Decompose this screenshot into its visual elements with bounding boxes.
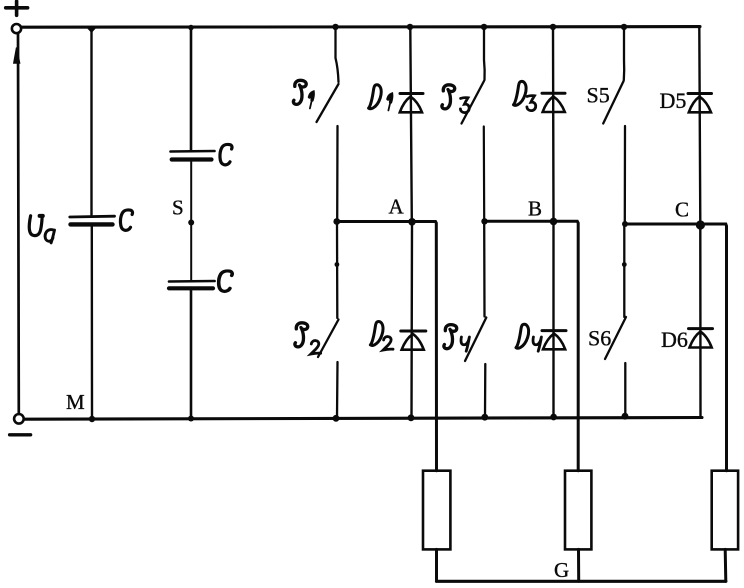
plus terminal symbol <box>6 1 28 15</box>
diode D4 <box>542 223 566 417</box>
resistor R1 <box>423 471 450 550</box>
svg-text:S: S <box>172 196 184 220</box>
wire left source line <box>17 34 20 414</box>
diode D1 <box>400 28 423 220</box>
junction dot S6 wire <box>622 262 627 267</box>
node B wire <box>485 221 579 470</box>
svg-text:M: M <box>66 390 85 414</box>
svg-text:D5: D5 <box>660 88 687 113</box>
switch S1 <box>317 28 339 220</box>
wire R1 bottom lead <box>435 549 438 581</box>
label S1 <box>293 80 313 108</box>
wire dc-link branch upper <box>90 27 92 215</box>
arrow Ud direction <box>14 48 20 64</box>
switch S5 <box>603 28 625 223</box>
junction dot bottom rail S2 <box>333 415 340 422</box>
label C3 value C <box>219 271 233 291</box>
capacitor C3 <box>169 281 215 288</box>
junction dot S <box>188 220 194 226</box>
label S4 <box>444 325 470 352</box>
svg-text:C: C <box>675 198 689 222</box>
svg-text:A: A <box>389 195 405 219</box>
label C2 value C <box>220 144 232 164</box>
wire R3 bottom lead <box>724 549 728 581</box>
junction dot top rail S-chain <box>188 25 194 31</box>
resistor R3 <box>712 471 738 550</box>
junction dot node A <box>408 218 416 226</box>
junction dot node A left <box>333 218 340 225</box>
junction dot top rail S1 <box>332 24 338 30</box>
diode D6 <box>689 226 713 417</box>
label S2 <box>295 323 321 354</box>
svg-text:S6: S6 <box>588 326 611 351</box>
negative terminal circle <box>14 414 24 424</box>
resistor R2 <box>565 471 591 550</box>
capacitor C2 <box>171 151 215 160</box>
switch S2 <box>318 223 339 417</box>
junction dot bottom rail S4 <box>481 414 488 421</box>
junction dot bottom rail D4 <box>550 414 557 421</box>
capacitor C1 <box>70 216 115 224</box>
diode D3 <box>542 28 565 220</box>
wire G bus <box>437 580 726 583</box>
switch S3 <box>462 28 485 220</box>
label D3 <box>514 81 536 110</box>
junction dot bottom rail D2 <box>408 414 415 421</box>
wire bottom rail <box>24 418 702 420</box>
junction dot node B left <box>481 218 487 224</box>
junction dot M <box>89 416 95 422</box>
junction dot top rail C1 <box>86 27 97 33</box>
label C1 value C <box>120 210 132 230</box>
label D4 <box>516 324 541 351</box>
diode D2 <box>401 223 426 417</box>
switch S4 <box>465 223 486 417</box>
svg-text:D6: D6 <box>661 327 688 352</box>
node C wire <box>625 224 727 471</box>
junction dot bottom rail S6 <box>622 413 629 420</box>
junction dot S2 wire <box>335 262 340 267</box>
svg-text:B: B <box>528 197 542 221</box>
node A wire <box>337 222 437 471</box>
positive terminal circle <box>12 24 21 33</box>
junction dot node B <box>550 218 558 226</box>
wire top rail <box>21 25 700 29</box>
switch S6 <box>605 226 626 415</box>
junction dot node C <box>696 220 705 229</box>
junction dot top rail D1 <box>407 24 413 30</box>
label D1 <box>369 85 392 111</box>
junction dot top rail D3 <box>550 24 556 30</box>
wire midpoint chain lower <box>190 290 193 418</box>
junction dot top rail S5 <box>621 24 627 30</box>
diode D5 <box>688 27 712 223</box>
junction dot node C left <box>622 221 628 227</box>
wire R2 bottom lead <box>577 549 580 581</box>
junction dot top rail S3 <box>481 24 487 30</box>
label D2 <box>370 321 393 350</box>
wire S midpoint <box>190 162 192 281</box>
wire midpoint chain upper <box>190 27 193 150</box>
label S3 <box>442 85 469 113</box>
minus terminal symbol <box>10 433 31 436</box>
wire dc-link branch lower <box>91 227 94 419</box>
junction dot bottom rail S-chain <box>188 416 194 422</box>
label Ud <box>29 216 54 243</box>
svg-text:S5: S5 <box>587 83 610 108</box>
svg-text:G: G <box>554 558 569 582</box>
